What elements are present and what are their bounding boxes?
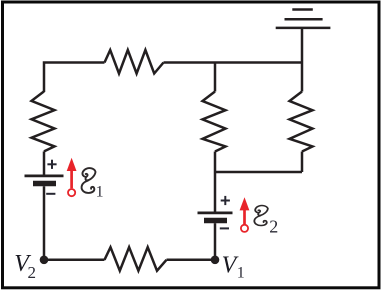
ground bbox=[276, 10, 331, 28]
svg-text:1: 1 bbox=[96, 183, 104, 200]
wire: right resistor to connector bbox=[301, 152, 304, 173]
battery E1 plate positive (long thin) bbox=[25, 175, 64, 178]
battery E1 plus sign bbox=[47, 160, 56, 169]
node V1 junction dot bbox=[211, 255, 220, 264]
ground stem wire bbox=[301, 28, 304, 63]
svg-text:2: 2 bbox=[269, 217, 278, 237]
battery E2 plate negative (short thick) bbox=[204, 218, 227, 223]
resistor R4 (middle branch vertical) bbox=[203, 92, 226, 152]
svg-text:2: 2 bbox=[28, 263, 37, 282]
wire: battery E1 to node V2 bbox=[43, 186, 46, 260]
svg-text:1: 1 bbox=[237, 264, 245, 281]
battery E1 minus sign bbox=[46, 193, 55, 195]
wire connector between branches bbox=[215, 171, 302, 174]
wire bottom: resistor to node V1 bbox=[167, 259, 216, 262]
label EMF script E2 bbox=[254, 206, 268, 226]
battery E1 plate negative (short thick) bbox=[33, 181, 56, 186]
battery E2 minus sign bbox=[220, 227, 229, 229]
wire: battery E2 to node V1 bbox=[214, 223, 217, 260]
battery E2 plate positive (long thin) bbox=[198, 212, 233, 215]
label EMF script E1 bbox=[82, 168, 96, 193]
wire: left resistor to battery E1 bbox=[43, 151, 46, 174]
resistor R5 (right branch vertical) bbox=[290, 92, 313, 152]
wire: middle branch top bbox=[214, 63, 217, 92]
resistor R1 (top horizontal) bbox=[105, 50, 164, 74]
wire: right branch top bbox=[301, 63, 304, 92]
wire top: left corner to top resistor bbox=[44, 63, 105, 93]
emf arrow 2 (red, with open circle) bbox=[240, 197, 250, 232]
resistor R2 (left wire vertical) bbox=[32, 91, 55, 151]
wire: middle resistor to battery E2 bbox=[214, 152, 217, 212]
wire bottom: node V2 to bottom resistor bbox=[44, 259, 105, 262]
wire top: resistor to ground stem junction bbox=[164, 61, 303, 64]
emf arrow 1 (red, with open circle) bbox=[67, 158, 77, 196]
battery E2 plus sign bbox=[221, 196, 230, 205]
resistor R3 (bottom horizontal) bbox=[105, 247, 167, 271]
node V2 junction dot bbox=[40, 255, 49, 264]
